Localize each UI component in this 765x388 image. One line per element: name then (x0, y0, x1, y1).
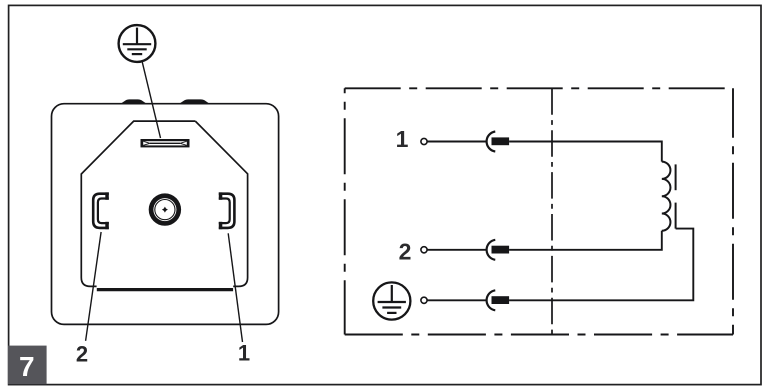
mounting bump left (120, 99, 148, 104)
svg-text:1: 1 (238, 341, 250, 366)
pin 2 terminal (421, 247, 427, 253)
connector recess polygon (81, 121, 195, 286)
wire contact to earth terminal (427, 299, 486, 301)
contact socket pin 1 (487, 132, 510, 152)
wire coil to pin 2 (509, 231, 662, 250)
contact 2 (left bracket) (93, 192, 109, 229)
coil L1 (662, 162, 671, 231)
core to earth wire (509, 229, 693, 301)
leader to label 1 (228, 233, 242, 342)
svg-text:1: 1 (396, 126, 409, 152)
earth symbol (schematic PE) (373, 282, 410, 319)
pin 1 terminal (421, 138, 427, 144)
svg-text:7: 7 (19, 351, 35, 382)
wire contact to coil (pin 1) (509, 142, 662, 162)
earth terminal (421, 297, 427, 303)
center screw M3 (149, 193, 181, 225)
connector body outline (52, 104, 279, 325)
contact 1 (right bracket) (219, 192, 235, 229)
svg-text:2: 2 (76, 342, 88, 367)
leader to label 2 (86, 232, 102, 341)
contact socket pin 2 (487, 240, 510, 260)
earth symbol (top callout) (119, 25, 156, 62)
mounting bump right (178, 99, 210, 104)
figure number box 7 (8, 346, 47, 385)
recess bottom heavy line (97, 288, 233, 291)
symmetry centerline (dash-dot) (551, 88, 553, 334)
svg-text:2: 2 (399, 239, 412, 265)
magnetic core (dashes) (675, 164, 677, 228)
leader earth symbol to earth slot (142, 62, 160, 138)
earth slot (141, 139, 190, 147)
schematic boundary (dash-dot frame) (345, 88, 733, 334)
wire pin1 to contact (427, 141, 487, 143)
wire contact to pin 2 terminal (427, 249, 486, 251)
contact socket earth (487, 290, 510, 310)
